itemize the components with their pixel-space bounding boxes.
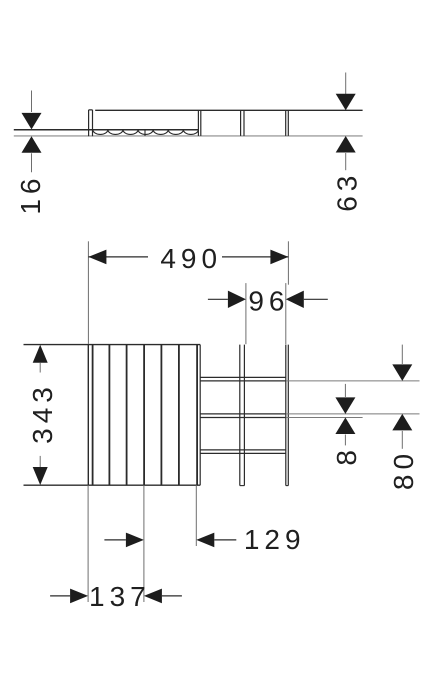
joint line in scallop section bbox=[144, 130, 146, 136]
dim 16 arrow down bbox=[22, 113, 42, 129]
dim 16 arrow up bbox=[22, 136, 42, 153]
dim 137 tail left bbox=[50, 595, 70, 597]
rung 1 bbox=[200, 377, 286, 381]
rung 2 bbox=[200, 414, 286, 418]
rail 1 (left vertical bar) bbox=[240, 345, 245, 486]
dim 8 arrow down bbox=[335, 397, 355, 414]
svg-text:96: 96 bbox=[248, 285, 289, 316]
dim 96 arrow left bbox=[228, 291, 246, 308]
dim 343 leader bottom bbox=[39, 456, 41, 467]
dim 137 extension line left bbox=[87, 485, 89, 602]
dim 343 arrow down bbox=[33, 467, 48, 485]
shelf plate bottom line bbox=[14, 135, 363, 137]
dim 96 tail left bbox=[208, 298, 228, 300]
divider 2 (double line) bbox=[241, 110, 244, 136]
svg-text:490: 490 bbox=[160, 243, 222, 274]
rung 3 bbox=[200, 450, 286, 454]
dim 490 extension line right bbox=[287, 241, 289, 284]
svg-text:137: 137 bbox=[89, 581, 151, 612]
shelf plate top line bbox=[14, 129, 199, 131]
dim 129 tail right bbox=[214, 539, 236, 541]
rail 2 (right vertical bar) bbox=[286, 345, 289, 486]
dim 63 arrow up bbox=[336, 136, 356, 153]
svg-text:63: 63 bbox=[331, 171, 362, 212]
shelf rect top edge (extended left as extension line) bbox=[24, 344, 201, 346]
dim 8 leader top bbox=[344, 384, 346, 397]
dim 96 tail right bbox=[304, 298, 328, 300]
dim 343 leader top bbox=[39, 363, 41, 373]
shelf rect left edge double line bbox=[87, 345, 89, 486]
dim 96 extension line left bbox=[245, 283, 247, 344]
rung 2 extension lines for dims 8 and 80 bbox=[286, 414, 420, 418]
dim 490 line bbox=[88, 256, 288, 258]
dim 490 arrow left bbox=[88, 250, 106, 265]
dim 80 arrow up bbox=[392, 414, 412, 431]
shelf body top line bbox=[95, 109, 362, 111]
shelf rect right edge double line bbox=[196, 345, 198, 486]
dim 96 arrow right bbox=[286, 291, 304, 308]
dim 80 leader bottom bbox=[401, 431, 403, 449]
dim 63 leader top bbox=[345, 73, 347, 95]
slat lines bbox=[109, 345, 178, 486]
svg-text:8: 8 bbox=[331, 445, 362, 466]
dim 8 leader bottom bbox=[344, 435, 346, 446]
dim 63 leader bottom bbox=[345, 153, 347, 170]
left end cap bbox=[89, 110, 93, 136]
dim 129 extension line bbox=[195, 485, 197, 546]
dim 129 arrow right bbox=[196, 533, 214, 548]
divider 1 (double line) bbox=[198, 110, 200, 136]
dim 137 extension line right bbox=[143, 485, 145, 602]
dim 16 leader bottom bbox=[31, 153, 33, 172]
dim 137 arrow left bbox=[70, 589, 88, 604]
dim 490 arrow right bbox=[270, 250, 288, 265]
svg-text:129: 129 bbox=[244, 524, 306, 555]
dim 490 extension line left bbox=[87, 241, 89, 344]
dim 137 arrow right bbox=[144, 589, 162, 604]
svg-text:343: 343 bbox=[27, 382, 58, 444]
dim 8 arrow up bbox=[335, 418, 355, 435]
dim 16 leader top bbox=[31, 91, 33, 113]
scalloped underside (7 arcs) bbox=[93, 130, 199, 135]
dim 80 leader top bbox=[401, 345, 403, 364]
right end of body (double line) bbox=[286, 110, 289, 136]
shelf rect bottom edge (extended left as extension line) bbox=[24, 484, 201, 486]
svg-text:16: 16 bbox=[15, 174, 46, 215]
svg-text:80: 80 bbox=[388, 449, 419, 490]
dim 129 tail left bbox=[104, 539, 126, 541]
dim 80 arrow down bbox=[392, 364, 412, 381]
dim 137 tail right bbox=[162, 595, 182, 597]
dim 63 arrow down bbox=[336, 94, 356, 111]
dim 129 arrow left bbox=[126, 533, 144, 548]
dim 343 arrow up bbox=[33, 345, 48, 363]
dim 96 extension line right bbox=[285, 283, 287, 344]
rung 1 extension line for dim 80 bbox=[286, 380, 420, 382]
